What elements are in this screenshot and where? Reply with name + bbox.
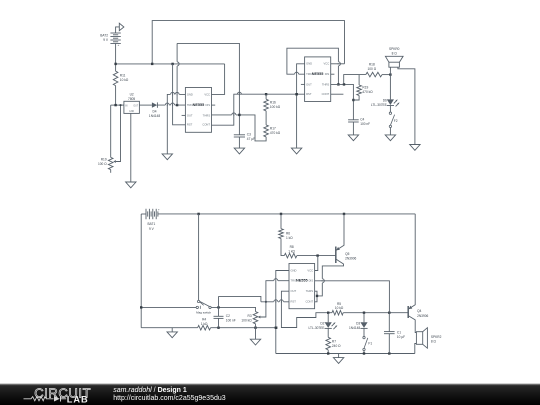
svg-text:7805: 7805	[128, 97, 135, 101]
svg-text:R5: R5	[337, 302, 341, 306]
svg-text:Q5: Q5	[345, 252, 349, 256]
svg-text:OUT: OUT	[306, 82, 312, 86]
svg-text:R16: R16	[270, 101, 276, 105]
svg-text:CONT: CONT	[202, 123, 210, 127]
svg-text:Mag switch: Mag switch	[196, 311, 211, 315]
svg-text:Q4: Q4	[417, 309, 421, 313]
svg-text:100 kΩ: 100 kΩ	[241, 318, 252, 322]
svg-text:+: +	[158, 208, 160, 212]
svg-text:1 kΩ: 1 kΩ	[201, 322, 208, 326]
svg-text:U2: U2	[130, 92, 134, 96]
svg-text:2N3906: 2N3906	[345, 257, 356, 261]
svg-text:LAB: LAB	[67, 394, 89, 404]
svg-text:1 kΩ: 1 kΩ	[288, 250, 295, 254]
svg-text:8 Ω: 8 Ω	[431, 340, 437, 344]
svg-text:sam.raddohl / Design 1: sam.raddohl / Design 1	[113, 387, 187, 394]
svg-text:100 Ω: 100 Ω	[98, 162, 107, 166]
svg-text:R17: R17	[270, 126, 276, 130]
svg-text:C2: C2	[226, 314, 230, 318]
svg-text:1 kΩ: 1 kΩ	[286, 236, 293, 240]
svg-text:D6: D6	[383, 99, 387, 103]
svg-text:DIS: DIS	[309, 279, 314, 283]
svg-text:R6: R6	[286, 232, 290, 236]
svg-text:OUT: OUT	[291, 289, 297, 293]
svg-text:OUT: OUT	[187, 113, 193, 117]
svg-text:100 nF: 100 nF	[360, 122, 370, 126]
svg-text:VCC: VCC	[307, 268, 313, 272]
svg-text:CONT: CONT	[305, 300, 313, 304]
svg-text:240 Ω: 240 Ω	[332, 344, 341, 348]
svg-text:C3: C3	[247, 132, 251, 136]
svg-text:C4: C4	[360, 117, 364, 121]
svg-text:470 kΩ: 470 kΩ	[362, 90, 373, 94]
svg-text:RST: RST	[291, 300, 297, 304]
svg-text:RST: RST	[187, 123, 193, 127]
svg-text:1N4148: 1N4148	[149, 114, 160, 118]
svg-text:GND: GND	[306, 62, 312, 66]
svg-text:GND: GND	[187, 92, 193, 96]
svg-text:DIS: DIS	[325, 72, 330, 76]
svg-text:10 kΩ: 10 kΩ	[120, 78, 129, 82]
svg-text:R11: R11	[120, 74, 126, 78]
svg-text:R18: R18	[369, 62, 375, 66]
svg-text:1N4148: 1N4148	[349, 326, 360, 330]
svg-text:BAT1: BAT1	[148, 222, 156, 226]
svg-text:VCC: VCC	[204, 92, 210, 96]
svg-text:LTL-307EE: LTL-307EE	[371, 103, 387, 107]
svg-text:+: +	[118, 43, 120, 47]
svg-text:http://circuitlab.com/c2a55g9e: http://circuitlab.com/c2a55g9e35du3	[113, 395, 226, 402]
svg-text:GND: GND	[291, 268, 297, 272]
svg-text:47 µF: 47 µF	[247, 137, 255, 141]
svg-text:8 Ω: 8 Ω	[392, 51, 398, 55]
svg-text:R19: R19	[362, 85, 368, 89]
svg-text:IN: IN	[125, 105, 128, 107]
svg-text:D4: D4	[152, 109, 156, 113]
svg-text:F2: F2	[394, 119, 398, 123]
svg-text:100 nF: 100 nF	[226, 318, 236, 322]
svg-text:GND: GND	[129, 111, 134, 113]
svg-text:RST: RST	[306, 92, 312, 96]
svg-text:LTL-307EE: LTL-307EE	[309, 326, 325, 330]
svg-text:R8: R8	[290, 245, 294, 249]
svg-text:100 kΩ: 100 kΩ	[270, 105, 281, 109]
svg-text:R3: R3	[248, 314, 252, 318]
svg-text:D2: D2	[320, 322, 324, 326]
svg-text:10 kΩ: 10 kΩ	[335, 306, 344, 310]
svg-text:BAT2: BAT2	[100, 34, 108, 38]
svg-text:470 kΩ: 470 kΩ	[270, 131, 281, 135]
svg-text:DIS: DIS	[206, 103, 211, 107]
svg-text:2N3906: 2N3906	[417, 314, 428, 318]
svg-text:SPKR0: SPKR0	[389, 47, 400, 51]
svg-text:C1: C1	[397, 331, 401, 335]
svg-text:R4: R4	[202, 317, 206, 321]
svg-text:D3: D3	[356, 322, 360, 326]
svg-text:THRS: THRS	[203, 113, 211, 117]
svg-text:R7: R7	[332, 339, 336, 343]
svg-text:SPKR2: SPKR2	[431, 335, 442, 339]
svg-text:THRS: THRS	[306, 289, 314, 293]
svg-text:VCC: VCC	[324, 62, 330, 66]
svg-text:10 µF: 10 µF	[397, 335, 405, 339]
svg-text:NE555: NE555	[312, 72, 324, 76]
svg-text:F1: F1	[368, 341, 372, 345]
svg-text:R19: R19	[101, 158, 107, 162]
svg-text:OUT: OUT	[133, 105, 138, 107]
svg-text:NE555: NE555	[193, 103, 205, 107]
svg-text:THRS: THRS	[322, 82, 330, 86]
svg-text:NE555: NE555	[296, 279, 308, 283]
svg-text:CONT: CONT	[322, 92, 330, 96]
svg-text:100 Ω: 100 Ω	[368, 67, 377, 71]
